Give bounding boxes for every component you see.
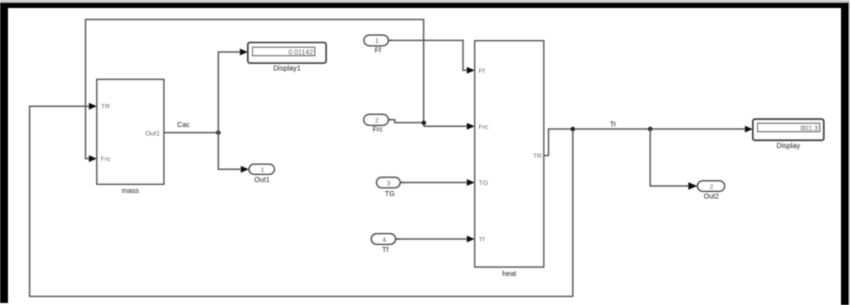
svg-text:801.3: 801.3 xyxy=(800,125,818,132)
svg-text:Display: Display xyxy=(777,141,801,150)
wire Cac from mass Out1 xyxy=(164,132,219,134)
svg-text:Out2: Out2 xyxy=(704,193,719,200)
svg-text:heat: heat xyxy=(502,269,516,278)
svg-text:TR: TR xyxy=(533,153,542,160)
svg-text:Out1: Out1 xyxy=(145,130,160,137)
svg-text:Display1: Display1 xyxy=(273,64,301,73)
wire to Display1 xyxy=(218,52,241,133)
svg-text:TG: TG xyxy=(385,191,395,198)
svg-text:TG: TG xyxy=(479,180,488,187)
wire TG to heat xyxy=(404,182,468,184)
wire Frc feedback loop (inport 2 branch up over the top to mass Frc) xyxy=(86,20,424,159)
arrow into mass TR xyxy=(89,103,97,110)
wire Tf to heat xyxy=(399,238,468,240)
inport 2 Frc xyxy=(364,114,392,133)
svg-text:Cac: Cac xyxy=(177,122,190,129)
svg-text:Frc: Frc xyxy=(101,156,111,163)
svg-text:2: 2 xyxy=(375,118,379,125)
svg-text:Frc: Frc xyxy=(373,127,384,134)
inport 4 Tf xyxy=(371,234,399,254)
node Cac junction xyxy=(216,130,221,135)
wire TR to Display xyxy=(544,129,747,156)
wire to Out1 xyxy=(218,133,242,170)
wire Ff to heat xyxy=(391,40,468,70)
inport 1 Ff xyxy=(364,35,391,55)
outport 2 Out2 xyxy=(697,181,724,201)
node TR junction 2 xyxy=(648,127,653,132)
svg-text:2: 2 xyxy=(710,184,714,191)
display Display xyxy=(753,119,824,150)
svg-text:0.01142: 0.01142 xyxy=(288,49,313,56)
outport 1 Out1 xyxy=(249,164,275,184)
svg-text:Tf: Tf xyxy=(382,247,388,254)
svg-text:3: 3 xyxy=(387,180,391,187)
svg-text:Ff: Ff xyxy=(375,48,381,55)
block mass xyxy=(97,79,164,195)
svg-text:1: 1 xyxy=(261,167,265,174)
svg-text:TR: TR xyxy=(101,104,110,111)
wire to Out2 xyxy=(650,129,688,186)
svg-text:4: 4 xyxy=(382,237,386,244)
wire Frc to heat xyxy=(391,120,468,127)
arrow into mass Frc xyxy=(89,155,97,162)
node TR junction 1 xyxy=(571,127,576,132)
svg-text:Ff: Ff xyxy=(479,68,485,75)
inport 3 TG xyxy=(377,177,404,197)
svg-text:Out1: Out1 xyxy=(254,177,269,184)
node Frc junction xyxy=(422,121,427,126)
block heat xyxy=(475,41,544,278)
frame bars (decorative) xyxy=(0,0,850,3)
wire TR feedback loop (bottom loop to mass TR) xyxy=(30,106,573,296)
svg-text:Tr: Tr xyxy=(610,121,617,128)
display Display1 xyxy=(248,43,326,73)
svg-text:mass: mass xyxy=(122,186,140,195)
svg-text:Tf: Tf xyxy=(479,237,485,244)
svg-text:1: 1 xyxy=(375,38,379,45)
svg-text:Frc: Frc xyxy=(479,124,489,131)
